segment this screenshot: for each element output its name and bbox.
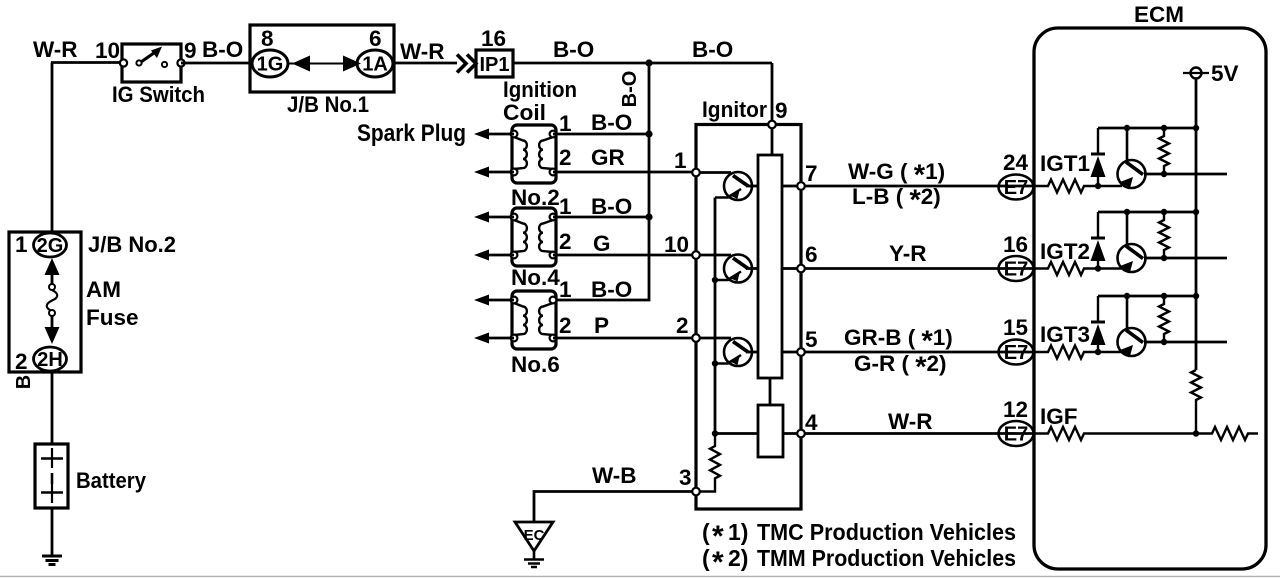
connector 2G oval [34, 233, 67, 257]
svg-text:5V: 5V [1211, 61, 1239, 86]
svg-text:8: 8 [261, 26, 274, 51]
resistor R1 (ignitor bias) [700, 434, 720, 492]
svg-text:2: 2 [559, 313, 572, 338]
battery cells [41, 457, 63, 460]
wire W-R pin 4 to ECM pin 12 [805, 432, 1036, 435]
svg-text:No.6: No.6 [511, 352, 560, 377]
transistor Q4 (ECM IGT1) [1118, 128, 1146, 188]
pin 1 terminal [692, 169, 700, 177]
svg-text:AM: AM [86, 277, 121, 302]
svg-text:1: 1 [559, 277, 572, 302]
connector 2H oval [34, 347, 67, 371]
svg-text:IG Switch: IG Switch [112, 82, 205, 107]
wire coil No.2 to spark plug (pin HT) [488, 133, 514, 136]
svg-text:EC: EC [524, 527, 545, 544]
transistor Q6 (ECM IGT3) [1118, 296, 1146, 356]
node rail2 / 5V line [1193, 209, 1199, 215]
svg-text:IGT3: IGT3 [1040, 322, 1090, 347]
IGT3 output wire [1144, 341, 1227, 344]
wire B-O from IG switch to J/B No.1 [181, 62, 250, 65]
ground (battery) [42, 556, 62, 565]
wire W-R from IG switch to J/B No.2 (left vertical feed) [51, 63, 122, 233]
svg-text:P: P [594, 313, 609, 338]
arrowhead toward 1A [343, 56, 361, 72]
svg-text:B-O: B-O [591, 194, 632, 219]
wire B-O coil No.4 pin 1 [553, 216, 649, 219]
node diode D1 / input [1095, 183, 1101, 189]
svg-text:E7: E7 [1004, 259, 1028, 281]
AM fuse symbol [49, 284, 55, 290]
svg-text:*: * [712, 546, 724, 578]
wire Q3 collector to driver block [746, 351, 758, 354]
transistor Q5 (ECM IGT2) [1118, 212, 1146, 272]
svg-text:Ignitor: Ignitor [702, 97, 767, 122]
wire B-O from IP1 to junction [513, 62, 772, 65]
svg-text:E7: E7 [1004, 177, 1028, 199]
node Q4 collector / rail [1124, 125, 1130, 131]
node R4 / output [1161, 171, 1167, 177]
svg-text:16: 16 [481, 26, 506, 51]
IG switch contact left [136, 60, 141, 65]
svg-text:G: G [593, 231, 611, 256]
pin 10 terminal [692, 251, 700, 259]
svg-text:2: 2 [15, 349, 28, 374]
ignition coil No.4 box [511, 208, 557, 266]
pin 6 terminal [797, 265, 805, 273]
wire driver block to pin 7 [782, 185, 797, 188]
connector IP1 box [476, 50, 513, 77]
svg-text:1: 1 [559, 194, 572, 219]
svg-text:Fuse: Fuse [86, 305, 139, 330]
wire W-G/L-B pin 7 to ECM pin 24 [805, 185, 1036, 188]
svg-text:16: 16 [1003, 232, 1028, 257]
wire coil No.4 to spark plug [488, 216, 514, 219]
svg-text:9: 9 [184, 38, 197, 63]
connector E7 (IGT1) [999, 175, 1034, 200]
node R6 / rail [1161, 209, 1167, 215]
connector 1G oval [252, 50, 288, 77]
svg-text:B-O: B-O [619, 71, 641, 108]
svg-text:1: 1 [674, 148, 687, 173]
svg-text:2G: 2G [37, 235, 64, 257]
IGT1 top rail [1098, 127, 1196, 130]
svg-text:B-O: B-O [591, 277, 632, 302]
IGT1 output wire [1144, 173, 1227, 176]
ground EC (triangle) [515, 522, 553, 567]
connector E7 (IGT3) [999, 340, 1034, 365]
resistor R8 (IGT3 pull-up) [1159, 296, 1169, 342]
node R8 / output [1161, 339, 1167, 345]
svg-text:W-B: W-B [592, 463, 637, 488]
node Q6 collector / rail [1124, 293, 1130, 299]
svg-text:24: 24 [1003, 150, 1029, 175]
node diode D3 / input [1095, 349, 1101, 355]
wire driver block to output block [769, 378, 772, 405]
svg-text:15: 15 [1003, 315, 1028, 340]
node R6 / output [1161, 255, 1167, 261]
svg-text:6: 6 [805, 242, 818, 267]
transistor Q1 (ignitor) [715, 172, 752, 200]
pin 9 terminal [768, 121, 776, 129]
battery BAT1 box [35, 444, 68, 508]
wire P coil No.6 pin 2 to ignitor pin 2 [553, 337, 696, 340]
pin 7 terminal [797, 182, 805, 190]
IG switch terminal 9 [177, 59, 184, 66]
wire B from J/B No.2 to battery [51, 372, 54, 444]
resistor R6 (IGT2 pull-up) [1159, 212, 1169, 258]
svg-text:J/B No.1: J/B No.1 [287, 92, 369, 117]
svg-text:TMM Production Vehicles: TMM Production Vehicles [757, 545, 1016, 571]
pin 4 terminal [797, 430, 805, 438]
svg-text:6: 6 [369, 26, 382, 51]
svg-text:L-B ( *2): L-B ( *2) [852, 184, 941, 217]
ECM box [1034, 28, 1266, 569]
resistor R2 (5V pull-up IGF) [1191, 370, 1201, 434]
svg-text:G-R ( *2): G-R ( *2) [854, 351, 947, 384]
wire pin 2 to transistor Q3 [700, 337, 731, 340]
svg-text:3: 3 [679, 465, 692, 490]
resistor R3 (IGT1 input) [1036, 180, 1122, 193]
wire output block to pin 4 [783, 432, 801, 435]
svg-text:5: 5 [805, 327, 818, 352]
svg-text:2: 2 [559, 145, 572, 170]
J/B No.1 box [250, 25, 394, 92]
connector chevrons >> into IP1 [457, 55, 476, 73]
wire B-O vertical distribution to coils [556, 63, 649, 300]
svg-text:1A: 1A [362, 54, 388, 76]
svg-text:B-O: B-O [591, 110, 632, 135]
node B-O at coil No.4 [645, 213, 652, 220]
svg-text:2: 2 [559, 229, 572, 254]
emitter bus wire (ignitor) [714, 198, 717, 434]
svg-text:B: B [13, 375, 35, 389]
transistor Q2 (ignitor) [715, 255, 752, 283]
arrow up to 2G [45, 258, 60, 275]
svg-text:10: 10 [95, 38, 120, 63]
svg-text:IGT2: IGT2 [1040, 239, 1090, 264]
svg-text:1G: 1G [257, 54, 284, 76]
node R8 / rail [1161, 293, 1167, 299]
wire GR-B/G-R pin 5 to ECM pin 15 [805, 351, 1036, 354]
node emitter bus / Q2 [712, 277, 718, 283]
wire pin 1 to transistor Q1 [700, 171, 731, 174]
bottom scan edge line [0, 576, 1280, 578]
diode D2 (IGT2) [1091, 212, 1106, 269]
connector 1A oval [357, 50, 393, 77]
wire coil No.6 to spark plug [488, 299, 514, 302]
node rail3 / 5V line [1193, 293, 1199, 299]
ignition coil No.6 box [511, 291, 557, 349]
svg-text:Y-R: Y-R [889, 241, 927, 266]
svg-text:1: 1 [559, 111, 572, 136]
svg-text:IGF: IGF [1040, 404, 1078, 429]
wire W-B pin 3 to ground [534, 492, 692, 522]
svg-text:TMC Production Vehicles: TMC Production Vehicles [757, 519, 1016, 545]
wire GR coil No.2 pin 2 to ignitor pin 1 [553, 171, 696, 174]
svg-text:4: 4 [805, 410, 818, 435]
svg-text:1: 1 [15, 232, 28, 257]
node rail / 5V line [1193, 125, 1199, 131]
resistor R9 (IGF input) [1036, 427, 1196, 440]
transistor Q3 (ignitor) [715, 338, 752, 366]
pin 2 terminal [692, 334, 700, 342]
ignition coil No.2 box [511, 125, 557, 183]
node diode D2 / input [1095, 265, 1101, 271]
svg-text:1): 1) [728, 519, 748, 545]
svg-text:J/B No.2: J/B No.2 [88, 232, 176, 257]
svg-text:Battery: Battery [76, 468, 146, 493]
svg-text:W-R: W-R [888, 409, 933, 434]
wire between 1G and 1A [288, 63, 357, 65]
svg-text:2): 2) [728, 545, 748, 571]
ignitor driver block (tall rectangle) [758, 155, 782, 378]
connector E7 (IGF) [999, 421, 1034, 446]
resistor R4 (IGT1 pull-up) [1159, 128, 1169, 174]
svg-text:(: ( [702, 545, 710, 571]
J/B No.2 box [9, 232, 81, 372]
arrowhead toward 1G [292, 56, 310, 72]
svg-text:E7: E7 [1004, 424, 1028, 446]
wire B-O down to ignitor pin 9 [771, 63, 774, 125]
wire driver block to pin 5 [782, 351, 797, 354]
svg-text:9: 9 [775, 98, 788, 123]
svg-text:(: ( [702, 519, 710, 545]
node R4 / rail [1161, 125, 1167, 131]
svg-text:IP1: IP1 [479, 54, 509, 76]
node Q5 collector / rail [1124, 209, 1130, 215]
wire Y-R pin 6 to ECM pin 16 [805, 267, 1036, 270]
IG switch contact right [162, 62, 167, 67]
wire Q2 collector to driver block [746, 267, 758, 270]
diode D3 (IGT3) [1091, 296, 1106, 352]
diode D1 (IGT1) [1091, 128, 1106, 186]
node emitter bus / Q3 [712, 360, 718, 366]
wire G coil No.4 pin 2 to ignitor pin 10 [553, 254, 696, 257]
pin 5 terminal [797, 348, 805, 356]
svg-text:B-O: B-O [553, 37, 594, 62]
svg-text:12: 12 [1003, 397, 1028, 422]
resistor R5 (IGT2 input) [1036, 262, 1122, 275]
svg-text:ECM: ECM [1134, 2, 1184, 27]
svg-text:10: 10 [664, 232, 689, 257]
wire 5V rail vertical [1195, 79, 1198, 371]
node emitter bus / output row [712, 430, 718, 436]
svg-text:W-R: W-R [33, 37, 78, 62]
svg-text:No.4: No.4 [511, 265, 560, 290]
svg-text:B-O: B-O [692, 37, 733, 62]
svg-text:Coil: Coil [503, 100, 546, 125]
IGT3 top rail [1098, 295, 1196, 298]
svg-text:W-R: W-R [400, 39, 445, 64]
connector E7 (IGT2) [999, 256, 1034, 281]
IG switch lever [141, 52, 156, 63]
node B-O junction [645, 59, 652, 66]
IG switch lever arrowhead [151, 47, 162, 59]
IG switch terminal 10 [120, 59, 127, 66]
node B-O at coil No.2 [645, 130, 652, 137]
ignitor output block (small rectangle) [758, 405, 783, 457]
svg-text:GR: GR [591, 145, 625, 170]
svg-text:Spark Plug: Spark Plug [357, 120, 466, 147]
resistor R10 (IGF series) [1196, 427, 1258, 440]
svg-text:No.2: No.2 [511, 185, 560, 210]
wire coil No.2 secondary to spark plug [488, 171, 514, 174]
node IGF / 5V pull-up [1193, 430, 1199, 436]
IG switch SW1 box [122, 44, 181, 82]
wire battery to ground [51, 508, 54, 555]
svg-text:B-O: B-O [202, 37, 243, 62]
svg-text:Ignition: Ignition [503, 77, 577, 102]
wire Q1 collector to driver block [746, 185, 758, 188]
wire pin 10 to transistor Q2 [700, 254, 731, 257]
svg-text:7: 7 [805, 161, 818, 186]
svg-text:E7: E7 [1004, 342, 1028, 364]
wire W-R from J/B No.1 to IP1 [394, 62, 457, 65]
pin 3 terminal [692, 488, 700, 496]
wire B-O coil No.2 pin 1 [553, 133, 649, 136]
ignitor box [696, 125, 801, 510]
IGT2 output wire [1144, 257, 1227, 260]
arrow down to 2H [51, 316, 54, 328]
svg-text:2H: 2H [37, 349, 63, 371]
wire pin 9 to driver block [771, 128, 774, 155]
svg-text:IGT1: IGT1 [1040, 151, 1090, 176]
5V supply symbol [1183, 68, 1209, 79]
svg-text:2: 2 [676, 313, 689, 338]
wire driver block to pin 6 [782, 267, 797, 270]
IGT2 top rail [1098, 211, 1196, 214]
wire coil No.4 secondary to spark plug [488, 254, 514, 257]
wire coil No.6 secondary to spark plug [488, 337, 514, 340]
wire emitter bus to output block [715, 432, 758, 435]
resistor R7 (IGT3 input) [1036, 346, 1122, 359]
